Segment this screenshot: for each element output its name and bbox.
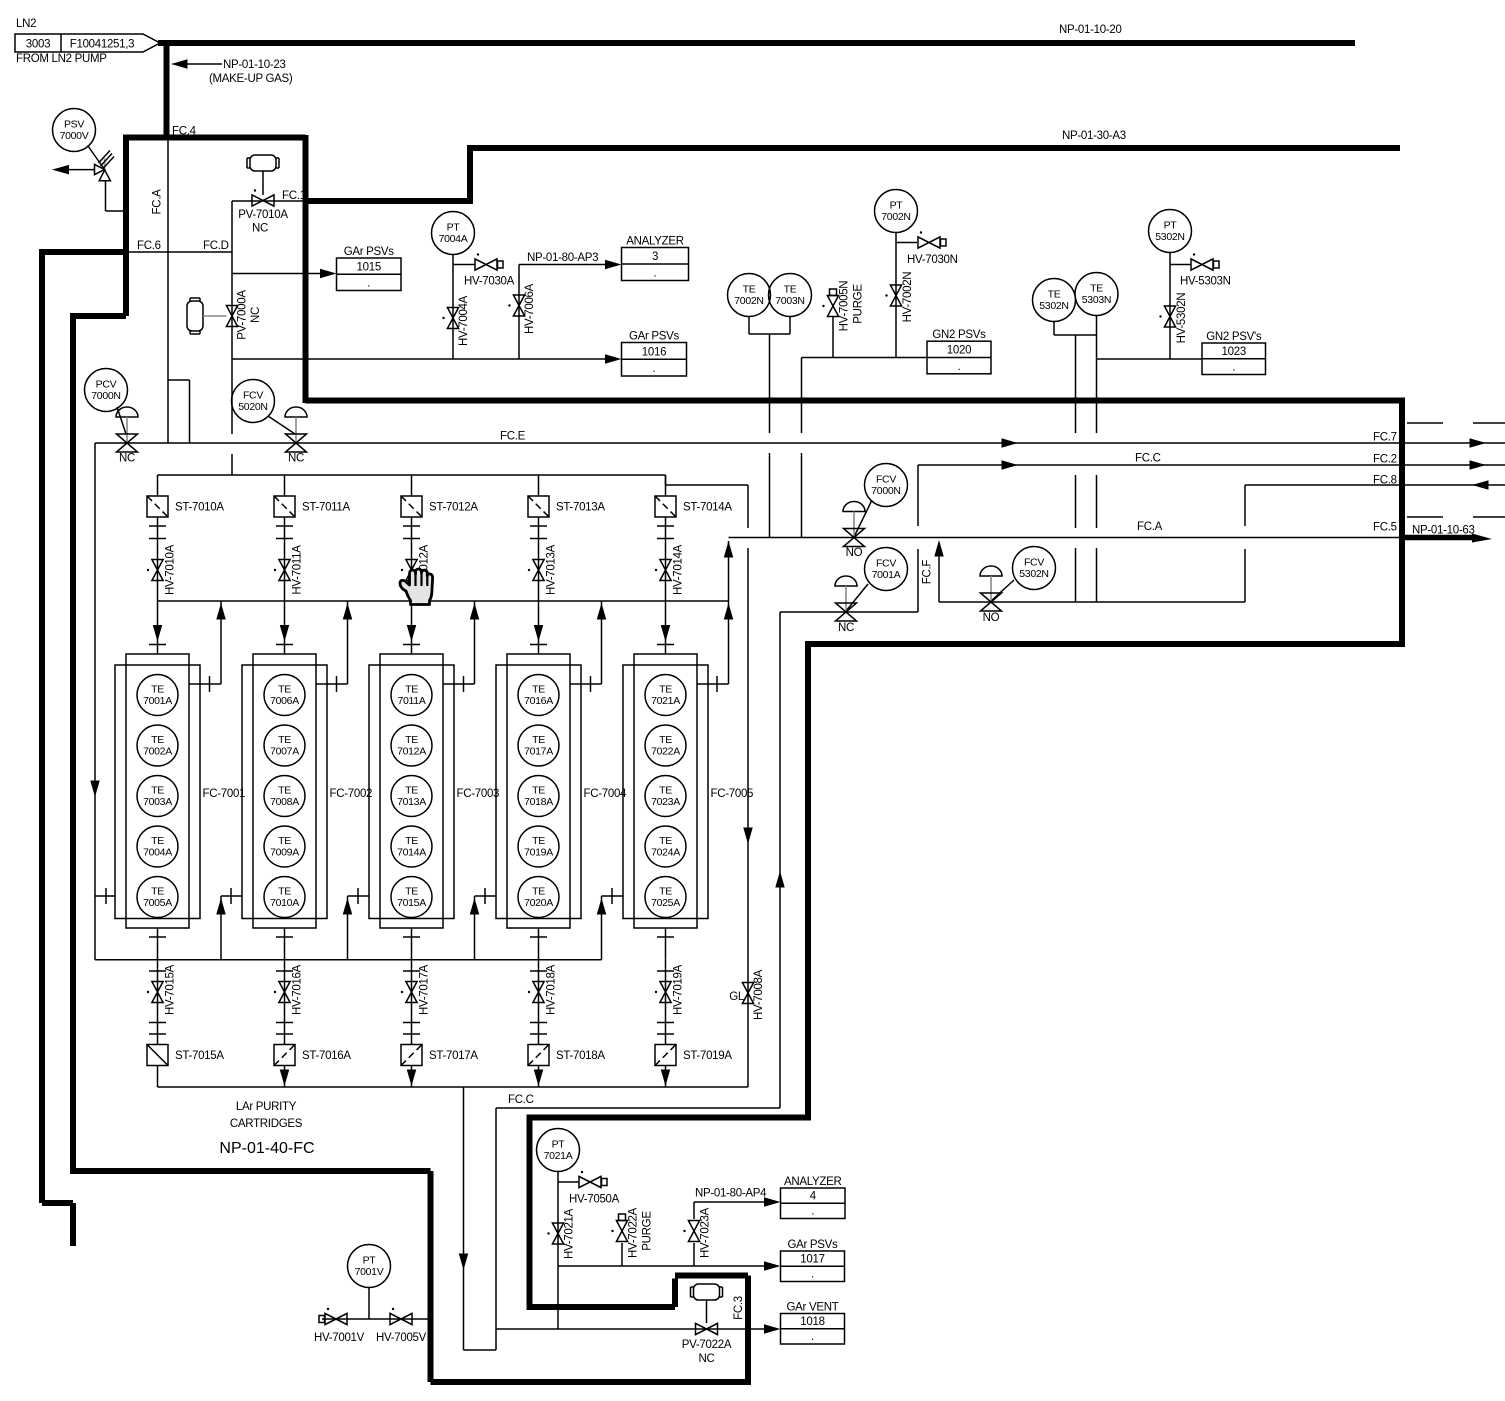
svg-text:GN2 PSV's: GN2 PSV's [1206,331,1262,343]
vessel column FC-7005 with TE instruments [623,654,753,928]
branch valve HV-7018A / strainer ST-7018A [538,960,540,1045]
inner boundary vertical x=430.5 [428,1171,434,1382]
line HV-7008A vertical x=748 [747,485,749,1087]
svg-text:PCV: PCV [96,379,117,391]
svg-text:FC.7: FC.7 [1373,432,1397,444]
line PT-7004A chain x=453 [453,255,475,359]
pipe NP-01-10-20 (thick top header line) [158,40,1355,46]
valve HV-7004A [442,295,470,346]
svg-text:7001V: 7001V [355,1266,384,1278]
svg-text:ST-7011A: ST-7011A [302,502,351,514]
svg-text:GN2 PSVs: GN2 PSVs [932,329,986,341]
svg-text:LN2: LN2 [16,18,36,30]
control valve FCV-5302N [980,566,1014,624]
target box ANALYZER 3 [622,236,689,281]
strainer branch ST-7010A / valve HV-7010A [157,475,159,496]
svg-text:TE: TE [659,684,672,696]
svg-text:FC.D: FC.D [203,240,229,252]
instrument TE-7003N [769,274,812,317]
svg-text:HV-7008A: HV-7008A [753,969,765,1020]
valve HV-5302N [1159,293,1188,344]
svg-text:.: . [654,268,657,280]
vessel column FC-7004 with TE instruments [496,654,627,928]
svg-text:PURGE: PURGE [642,1211,654,1251]
svg-text:4: 4 [810,1190,817,1202]
svg-text:FCV: FCV [1024,557,1044,569]
svg-text:7000N: 7000N [871,485,900,497]
svg-text:HV-7023A: HV-7023A [700,1207,712,1258]
line GN2 PSVs branch x=801.5 [801,358,803,538]
manifold upper return y=601 [158,600,729,602]
line to GAr PSVs 1015 y=273.5 [232,273,322,275]
valve PV-7022A with cylinder actuator [682,1284,732,1365]
instrument PT-7001V [348,1245,391,1288]
svg-text:NP-01-80-AP4: NP-01-80-AP4 [695,1188,767,1200]
valve HV-7002N [885,272,914,323]
instrument FCV-5020N [232,380,275,423]
svg-text:TE: TE [659,734,672,746]
svg-text:FROM LN2 PUMP: FROM LN2 PUMP [16,53,107,65]
svg-text:FCV: FCV [876,474,896,486]
svg-text:HV-7014A: HV-7014A [673,544,685,595]
line to GN2 PSVs 1020 y=357.5 [802,357,928,359]
line TE-7002N/7003N drop x=769.5 [769,334,771,538]
svg-text:.: . [653,363,656,375]
svg-text:7023A: 7023A [651,796,680,808]
svg-text:FC.2: FC.2 [1373,454,1397,466]
svg-text:5302N: 5302N [1155,231,1184,243]
svg-text:TE: TE [532,785,545,797]
svg-text:GAr PSVs: GAr PSVs [629,331,680,343]
branch valve HV-7016A / strainer ST-7016A [284,960,286,1045]
label LAr PURITY CARTRIDGES [230,1101,303,1130]
svg-text:NC: NC [288,453,304,465]
pipe GAr VENT y=1329 [496,1328,766,1330]
valve HV-7005N purge vent [822,281,864,332]
instrument FCV-5302N [1013,547,1056,590]
svg-text:HV-7021A: HV-7021A [564,1208,576,1259]
valve HV-7050A with cap [569,1171,620,1206]
svg-text:LAr PURITY: LAr PURITY [236,1101,297,1113]
dashed continuation lines at right edge [1407,422,1505,424]
svg-text:HV-7005N: HV-7005N [839,281,851,332]
line flag LN2 FROM LN2 PUMP [15,18,160,65]
svg-text:GL: GL [729,991,745,1003]
svg-text:NP-01-10-23: NP-01-10-23 [223,59,286,71]
inner boundary left vertical x=73 [70,313,76,1171]
svg-text:FC.8: FC.8 [1373,475,1397,487]
svg-text:HV-7019A: HV-7019A [673,964,685,1015]
svg-text:HV-7004A: HV-7004A [458,295,470,346]
svg-text:F10041251,3: F10041251,3 [70,39,134,51]
svg-text:FC.5: FC.5 [1373,522,1397,534]
svg-text:NP-01-40-FC: NP-01-40-FC [219,1140,314,1157]
svg-text:7016A: 7016A [524,695,553,707]
target box GAr PSVs 1016 [622,331,687,377]
pipe NP-01-30-A3 (thick header line) [467,145,1400,151]
bottom drop from column FC-7002 [284,928,286,960]
line HV-7006A x=519 and analyzer branch [519,265,607,360]
strainer branch ST-7013A / valve HV-7013A [538,475,540,496]
svg-text:7002N: 7002N [734,295,763,307]
svg-text:FC-7004: FC-7004 [584,788,628,800]
outer boundary elbow at bottom left [42,1203,73,1246]
svg-text:HV-7030A: HV-7030A [464,276,515,288]
svg-text:TE: TE [1048,289,1061,301]
instrument TE-5303N [1075,273,1118,316]
svg-text:HV-5302N: HV-5302N [1176,293,1188,344]
cold box boundary right vertical x=305.5 [303,135,309,403]
line HV-7023A branch [694,1202,766,1266]
inlet drop into column FC-7005 [665,601,667,654]
svg-text:1023: 1023 [1222,346,1246,358]
svg-text:PT: PT [447,222,461,234]
valve HV-7005V [376,1308,427,1344]
bottom drop from column FC-7003 [411,928,413,960]
line PT-7002N chain x=896 [896,233,917,358]
line HV-7005N purge drop [832,317,834,358]
outer boundary horizontal y=252 [42,249,126,255]
svg-text:HV-7001V: HV-7001V [314,1332,365,1344]
cursor hand icon [400,569,433,605]
svg-text:FC.C: FC.C [508,1094,534,1106]
svg-text:3: 3 [652,251,658,263]
branch valve HV-7017A / strainer ST-7017A [411,960,413,1045]
svg-text:FC.A: FC.A [152,189,164,215]
svg-text:1015: 1015 [357,261,381,273]
line to GN2 PSVs 1023 y=359 [1097,358,1203,360]
bracket TE-7002N TE-7003N [749,317,790,335]
svg-text:7012A: 7012A [397,746,426,758]
target box GAr PSVs 1017 [781,1239,845,1282]
svg-text:3003: 3003 [26,39,50,51]
arrow NP-01-10-23 make-up gas [171,59,293,85]
FC.2 box top y=1117.5 [527,1115,809,1121]
svg-text:.: . [811,1206,814,1218]
svg-text:7025A: 7025A [651,897,680,909]
target box GAr PSVs 1015 [337,246,402,291]
riser x=347.5 between columns (FC-7002 top-right / FC-7003 lower-left) [347,601,349,684]
control valve FCV-7001A [835,576,868,634]
svg-text:HV-5303N: HV-5303N [1180,276,1231,288]
svg-text:NP-01-80-AP3: NP-01-80-AP3 [527,252,598,264]
strainer branch ST-7014A / valve HV-7014A [665,475,667,496]
line PT-7001V group y=1319 [322,1288,428,1320]
instrument PT-7004A [432,212,475,255]
svg-text:GAr PSVs: GAr PSVs [787,1239,838,1251]
svg-text:TE: TE [151,734,164,746]
inlet drop into column FC-7002 [284,601,286,654]
inner boundary bottom y=1171 [70,1168,431,1174]
svg-text:ST-7019A: ST-7019A [683,1050,732,1062]
valve HV-7001V with cap [314,1308,365,1344]
svg-text:7021A: 7021A [544,1150,573,1162]
svg-text:NO: NO [846,547,863,559]
svg-text:FCV: FCV [876,558,896,570]
svg-text:.: . [811,1331,814,1343]
line PT-5302N chain x=1170 [1170,253,1191,359]
svg-text:ST-7013A: ST-7013A [556,502,605,514]
cold box FC.4 boundary top [123,135,306,141]
valve HV-7023A [683,1207,711,1258]
svg-text:NC: NC [119,453,135,465]
svg-text:TE: TE [743,284,756,296]
svg-text:FC.1: FC.1 [282,190,306,202]
riser FC.C x=780 [779,612,781,1108]
svg-text:7017A: 7017A [524,746,553,758]
cold box boundary left vertical x=126 [123,137,129,316]
svg-text:5302N: 5302N [1039,300,1068,312]
svg-text:HV-7010A: HV-7010A [165,544,177,595]
svg-text:HV-7002N: HV-7002N [902,272,914,323]
svg-text:7005A: 7005A [143,897,172,909]
inlet drop into column FC-7003 [411,601,413,654]
FC.3 box right vertical x=748 [745,1276,751,1386]
svg-text:HV-7022A: HV-7022A [628,1207,640,1258]
svg-text:7003A: 7003A [143,796,172,808]
instrument FCV-7000N [865,464,908,507]
svg-text:TE: TE [659,785,672,797]
pipe FC.1 thick line [306,198,471,204]
FC.2 box left vertical x=529.5 [527,1118,533,1311]
svg-text:HV-7017A: HV-7017A [419,964,431,1015]
instrument FCV-7001A [865,548,908,591]
pipe FC.C bottom y=1108 [496,1107,780,1109]
svg-text:7018A: 7018A [524,796,553,808]
svg-text:NC: NC [252,223,268,235]
svg-text:NC: NC [838,622,854,634]
svg-text:1017: 1017 [800,1253,824,1265]
vessel column FC-7003 with TE instruments [369,654,499,928]
svg-text:HV-7030N: HV-7030N [907,254,958,266]
svg-text:TE: TE [784,284,797,296]
svg-text:7020A: 7020A [524,897,553,909]
valve HV-7030A with cap [464,253,515,287]
svg-text:7007A: 7007A [270,746,299,758]
bottom drop from column FC-7005 [665,928,667,960]
svg-text:7004A: 7004A [439,233,468,245]
svg-text:7010A: 7010A [270,897,299,909]
svg-text:TE: TE [405,835,418,847]
instrument TE-7002N [728,274,771,317]
svg-text:ST-7014A: ST-7014A [683,502,732,514]
svg-text:1018: 1018 [800,1316,824,1328]
svg-text:GAr VENT: GAr VENT [787,1302,839,1314]
outer boundary left vertical x=42 [39,249,45,1203]
svg-text:7006A: 7006A [270,695,299,707]
svg-text:TE: TE [532,734,545,746]
valve HV-5303N with cap [1180,253,1231,287]
svg-text:TE: TE [151,886,164,898]
svg-text:NC: NC [250,307,262,323]
svg-text:TE: TE [151,835,164,847]
instrument TE-5302N [1033,279,1076,322]
svg-text:PURGE: PURGE [853,284,865,324]
line HV-7022A drop [621,1243,623,1266]
svg-text:7003N: 7003N [775,295,804,307]
target box GN2 PSV's 1023 [1202,331,1266,375]
svg-text:7014A: 7014A [397,847,426,859]
svg-text:TE: TE [278,835,291,847]
svg-text:7001A: 7001A [143,695,172,707]
line PT-7021A chain x=558 [558,1172,579,1330]
svg-text:FC-7002: FC-7002 [330,788,373,800]
port column FC-7005 top-right y=684 [697,683,729,685]
instrument PT-7002N [875,190,918,233]
svg-text:7004A: 7004A [143,847,172,859]
svg-text:NC: NC [698,1353,714,1365]
svg-text:ST-7010A: ST-7010A [175,502,224,514]
svg-text:7000V: 7000V [60,130,89,142]
svg-text:FC.E: FC.E [500,431,526,443]
valve HV-7030N with cap [907,231,958,266]
riser x=474.5 between columns (FC-7003 top-right / FC-7004 lower-left) [474,601,476,684]
line FC.A vertical x=168 with jog [168,138,190,443]
svg-text:.: . [958,361,961,373]
svg-text:7015A: 7015A [397,897,426,909]
svg-text:PT: PT [890,200,904,212]
svg-text:FC.F: FC.F [922,560,934,585]
target box ANALYZER 4 [781,1176,846,1219]
branch valve HV-7015A / strainer ST-7015A [157,960,159,1045]
svg-text:5020N: 5020N [238,401,267,413]
svg-text:HV-7013A: HV-7013A [546,544,558,595]
instrument PCV-7000N [85,369,128,412]
svg-text:ST-7017A: ST-7017A [429,1050,478,1062]
line FCV-5302N y=602 [939,601,1245,603]
svg-text:NO: NO [983,612,1000,624]
svg-text:ST-7012A: ST-7012A [429,502,478,514]
manifold feed y=475 [158,475,749,485]
svg-text:(MAKE-UP GAS): (MAKE-UP GAS) [209,73,293,85]
pipe FC.8 y=485 and riser x=1245 [1245,485,1505,602]
inlet drop into column FC-7004 [538,601,540,654]
svg-text:ANALYZER: ANALYZER [784,1176,841,1188]
svg-text:PT: PT [552,1139,566,1151]
svg-text:NP-01-10-20: NP-01-10-20 [1059,24,1122,36]
target box GAr VENT 1018 [781,1302,845,1345]
riser x=601.5 between columns (FC-7004 top-right / FC-7005 lower-left) [601,601,603,684]
svg-text:PV-7000A: PV-7000A [237,290,249,340]
svg-text:TE: TE [405,734,418,746]
line FC.C drop x=463.5 [464,1087,497,1350]
main box right-bottom vertical x=808 [805,644,811,1121]
pipe FC.E y=443 [95,442,1505,444]
svg-text:ANALYZER: ANALYZER [626,236,683,248]
svg-text:GAr PSVs: GAr PSVs [344,246,395,258]
main box right vertical x=1402 [1399,401,1405,648]
svg-text:.: . [1232,362,1235,374]
svg-text:PV-7010A: PV-7010A [238,209,288,221]
svg-text:7001A: 7001A [872,569,901,581]
control valve PCV-7000N [116,407,138,465]
bracket TE-5302N TE-5303N [1054,316,1097,335]
svg-text:HV-7015A: HV-7015A [165,964,177,1015]
pipe FC.A / FC.5 y=537.5 [729,537,1403,539]
svg-text:1020: 1020 [947,345,971,357]
svg-text:FC-7003: FC-7003 [457,788,500,800]
pipe NP-01-10-63 thick stub [1402,535,1474,541]
line FC.6 / FC.D header y=252 [126,251,232,253]
svg-text:TE: TE [278,785,291,797]
line FC.D vertical x=232 [231,201,233,475]
svg-text:7009A: 7009A [270,847,299,859]
svg-text:7013A: 7013A [397,796,426,808]
bottom drop from column FC-7004 [538,928,540,960]
valve HV-7022A purge vent [611,1207,653,1258]
svg-text:NP-01-30-A3: NP-01-30-A3 [1062,130,1126,142]
svg-text:HV-7006A: HV-7006A [524,283,536,334]
valve PV-7010A with cylinder actuator [238,155,288,235]
svg-text:FC-7005: FC-7005 [711,788,754,800]
line GN2 PSV branch x=1096.5 [1096,335,1098,602]
svg-text:5303N: 5303N [1082,294,1111,306]
valve HV-7006A [508,283,536,334]
svg-text:7002N: 7002N [881,211,910,223]
manifold cartridge outlet y=1087 (FC.C) [158,1086,749,1088]
instrument PT-5302N [1149,210,1192,253]
svg-text:FC-7001: FC-7001 [203,788,246,800]
svg-text:PSV: PSV [64,119,84,131]
svg-text:HV-7018A: HV-7018A [546,964,558,1015]
riser column FC-7005 top port x=728.5 [728,541,730,684]
svg-text:.: . [811,1269,814,1281]
svg-text:HV-7050A: HV-7050A [569,1194,620,1206]
header outlet manifold y=959.7 [95,959,602,961]
svg-text:FC.4: FC.4 [172,126,197,138]
svg-text:TE: TE [151,785,164,797]
line PV-7010A branch y=201 [232,200,306,202]
svg-text:TE: TE [1090,283,1103,295]
pipe riser to NP-01-30-A3 [467,148,473,204]
svg-text:7019A: 7019A [524,847,553,859]
svg-text:TE: TE [278,684,291,696]
svg-text:ST-7016A: ST-7016A [302,1050,351,1062]
svg-text:TE: TE [659,835,672,847]
instrument PT-7021A [537,1129,580,1172]
svg-text:TE: TE [405,684,418,696]
line FCV-7001A y=612 [780,611,918,613]
svg-text:.: . [367,278,370,290]
svg-text:TE: TE [532,886,545,898]
svg-text:1016: 1016 [642,346,666,358]
FC.3 box top jog [530,1276,749,1308]
strainer branch ST-7012A / valve HV-7012A [411,475,413,496]
svg-text:HV-7011A: HV-7011A [292,545,304,595]
svg-text:PT: PT [1164,220,1178,232]
svg-text:TE: TE [151,684,164,696]
svg-text:7002A: 7002A [143,746,172,758]
instrument PSV-7000V [88,146,105,170]
svg-text:CARTRIDGES: CARTRIDGES [230,1118,303,1130]
svg-text:NP-01-10-63: NP-01-10-63 [1412,525,1475,537]
svg-text:FC.C: FC.C [1135,453,1161,465]
svg-text:TE: TE [278,886,291,898]
svg-text:ST-7018A: ST-7018A [556,1050,605,1062]
svg-text:TE: TE [532,835,545,847]
pipe FC.C / FC.2 y=465 [918,464,1505,466]
strainer branch ST-7011A / valve HV-7011A [284,475,286,496]
svg-text:TE: TE [278,734,291,746]
svg-text:FCV: FCV [243,390,263,402]
svg-text:7000N: 7000N [91,390,120,402]
svg-text:TE: TE [532,684,545,696]
svg-text:HV-7005V: HV-7005V [376,1332,427,1344]
svg-text:FC.3: FC.3 [733,1296,745,1320]
pipe LN2 drop from header [164,42,170,138]
control valve FCV-7000N [843,500,872,559]
vessel column FC-7001 with TE instruments [115,654,245,928]
